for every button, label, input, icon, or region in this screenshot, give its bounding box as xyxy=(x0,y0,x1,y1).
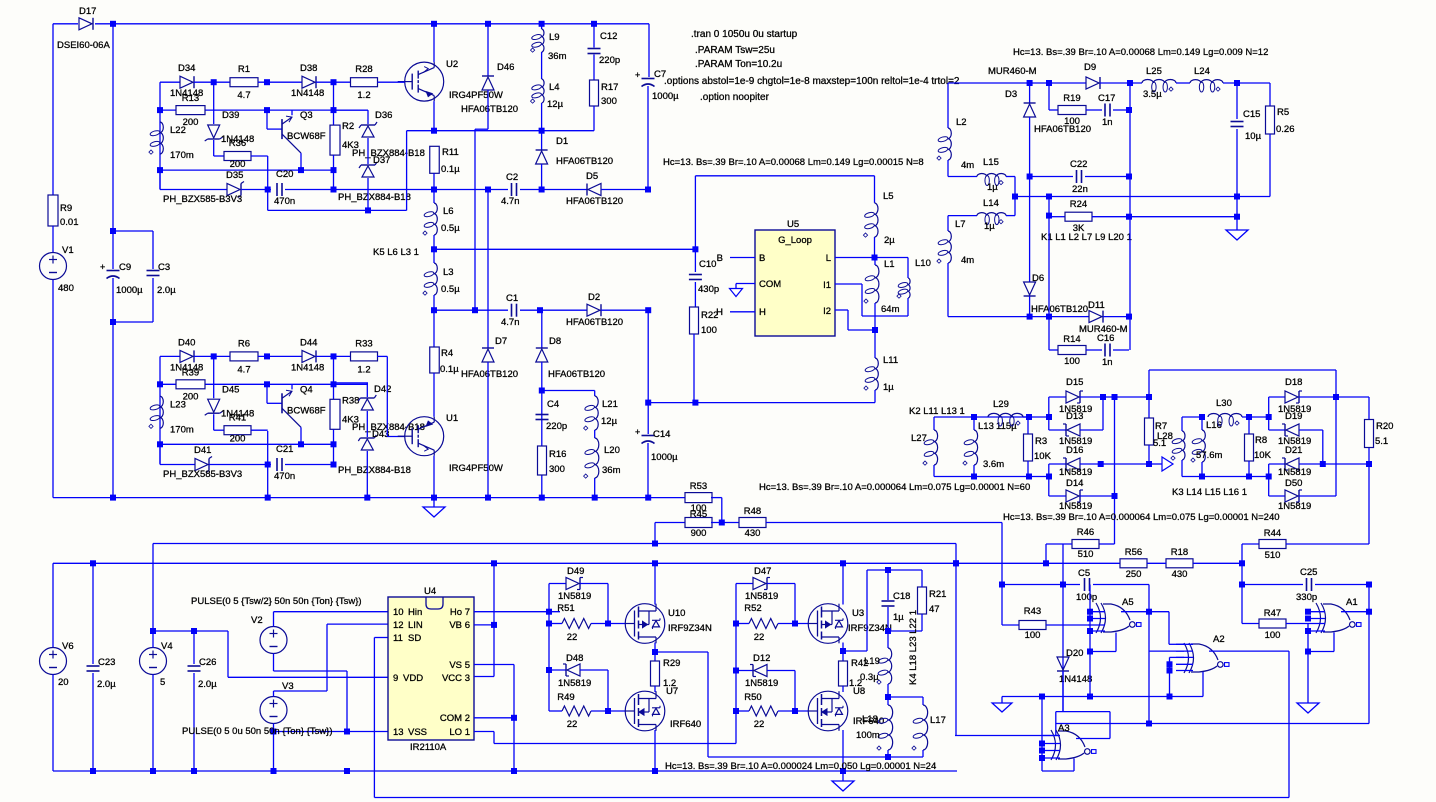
wire xyxy=(1076,738,1110,740)
wire xyxy=(316,355,351,357)
svg-text:430: 430 xyxy=(1172,569,1188,580)
wire xyxy=(378,81,405,83)
svg-text:R20: R20 xyxy=(1376,421,1393,432)
wire xyxy=(152,278,154,322)
svg-text:D40: D40 xyxy=(178,337,195,348)
svg-text:D47: D47 xyxy=(754,566,771,577)
resistor R42 xyxy=(839,658,869,689)
svg-text:L21: L21 xyxy=(602,399,618,410)
svg-text:R13: R13 xyxy=(182,93,199,104)
inductor L29 xyxy=(988,399,1023,426)
junction xyxy=(110,21,116,27)
svg-text:100: 100 xyxy=(701,325,717,336)
node H label xyxy=(716,307,723,318)
wire xyxy=(1103,316,1129,318)
svg-text:1N5819: 1N5819 xyxy=(1278,467,1311,478)
directive .PARAM Ton xyxy=(695,59,782,70)
svg-text:1.2: 1.2 xyxy=(663,678,676,689)
inductor L16 xyxy=(1191,420,1223,462)
resistor R8 xyxy=(1245,434,1272,461)
svg-text:200: 200 xyxy=(230,159,246,170)
wire xyxy=(648,402,875,404)
diode D13 xyxy=(1059,411,1092,447)
svg-text:R1: R1 xyxy=(238,64,250,75)
coupling K1 label xyxy=(1041,232,1132,243)
svg-text:20: 20 xyxy=(58,677,69,688)
wire xyxy=(285,464,334,466)
wire xyxy=(513,665,515,772)
junction xyxy=(265,462,271,468)
svg-text:C10: C10 xyxy=(699,259,716,270)
wire xyxy=(542,390,595,392)
junction xyxy=(1305,609,1311,615)
wire xyxy=(541,103,543,150)
resistor R6 xyxy=(230,338,258,375)
svg-text:D49: D49 xyxy=(567,566,584,577)
svg-text:12µ: 12µ xyxy=(547,99,564,110)
wire xyxy=(333,356,335,384)
wire xyxy=(251,155,268,157)
svg-text:R5: R5 xyxy=(1277,107,1289,118)
wire xyxy=(112,278,114,322)
svg-text:L2: L2 xyxy=(956,117,967,128)
junction xyxy=(1246,414,1252,420)
wire xyxy=(654,686,656,692)
inductor L27 xyxy=(911,430,1004,470)
junction xyxy=(971,474,977,480)
svg-text:430p: 430p xyxy=(698,284,719,295)
junction xyxy=(1146,721,1152,727)
svg-text:R56: R56 xyxy=(1125,547,1142,558)
wire xyxy=(1114,397,1116,544)
svg-text:R49: R49 xyxy=(557,692,574,703)
inductor L7 xyxy=(937,219,974,266)
junction xyxy=(1333,394,1339,400)
junction xyxy=(840,648,846,654)
wire xyxy=(1001,697,1003,704)
junction xyxy=(157,381,163,387)
svg-text:R11: R11 xyxy=(442,147,459,158)
wire xyxy=(601,189,648,191)
wire xyxy=(112,24,114,231)
wire xyxy=(1148,370,1150,418)
wire xyxy=(1006,176,1015,178)
wire xyxy=(1029,117,1031,177)
svg-text:C12: C12 xyxy=(600,31,617,42)
resistor R14 xyxy=(1058,334,1086,367)
junction xyxy=(1239,582,1245,588)
svg-text:VS: VS xyxy=(449,660,462,671)
wire xyxy=(907,258,909,279)
wire xyxy=(152,675,154,772)
svg-text:C9: C9 xyxy=(119,262,131,273)
diode D45 xyxy=(205,384,255,419)
wire xyxy=(1001,523,1003,585)
wire xyxy=(1113,109,1129,111)
svg-text:510: 510 xyxy=(1265,550,1281,561)
wire xyxy=(1236,129,1238,230)
wire xyxy=(1001,585,1003,626)
wire xyxy=(1121,611,1149,613)
svg-text:H: H xyxy=(716,307,723,318)
node top supply rail xyxy=(0,0,1,1)
capacitor C25 xyxy=(1296,567,1317,603)
wire xyxy=(160,355,180,357)
directive .tran xyxy=(691,29,798,40)
junction xyxy=(264,79,270,85)
wire xyxy=(888,696,923,698)
junction xyxy=(885,754,891,760)
junction xyxy=(110,319,116,325)
wire xyxy=(433,190,435,204)
wire xyxy=(112,231,114,269)
junction xyxy=(885,694,891,700)
junction xyxy=(298,441,304,447)
junction xyxy=(885,567,891,573)
junction xyxy=(485,495,491,501)
svg-text:D46: D46 xyxy=(497,62,514,73)
junction xyxy=(539,388,545,394)
wire xyxy=(1201,417,1203,430)
svg-text:K2 L11 L13 1: K2 L11 L13 1 xyxy=(909,406,965,417)
junction xyxy=(191,628,197,634)
label MUR460-M for D9 xyxy=(988,66,1037,77)
svg-text:Q3: Q3 xyxy=(300,110,313,121)
svg-text:Hc=13. Bs=.39 Br=.10 A=0.00068: Hc=13. Bs=.39 Br=.10 A=0.00068 Lm=0.149 … xyxy=(1013,47,1268,58)
wire xyxy=(549,710,562,712)
svg-text:L22: L22 xyxy=(170,125,186,136)
svg-text:D48: D48 xyxy=(566,653,583,664)
wire xyxy=(227,631,229,677)
junction xyxy=(537,307,543,313)
wire xyxy=(1080,396,1149,398)
wire xyxy=(52,563,54,647)
svg-text:C5: C5 xyxy=(1078,568,1090,579)
svg-text:R44: R44 xyxy=(1264,528,1281,539)
ground xyxy=(832,781,854,791)
svg-text:IRG4PF50W: IRG4PF50W xyxy=(449,463,503,474)
junction xyxy=(1234,194,1240,200)
resistor R28 xyxy=(351,64,378,101)
wire xyxy=(1041,697,1043,772)
wire xyxy=(52,280,54,498)
svg-text:1N5819: 1N5819 xyxy=(745,591,778,602)
svg-text:Hc=13. Bs=.39 Br=.10 A=0.00006: Hc=13. Bs=.39 Br=.10 A=0.000064 Lm=0.075… xyxy=(759,482,1030,493)
svg-text:L28: L28 xyxy=(1157,431,1173,442)
wire xyxy=(947,160,949,177)
wire xyxy=(1149,611,1169,613)
junction xyxy=(1027,174,1033,180)
resistor R48 xyxy=(739,506,766,539)
svg-text:R2: R2 xyxy=(342,121,354,132)
wire xyxy=(1055,712,1057,736)
wire xyxy=(1129,83,1131,350)
wire xyxy=(327,623,388,625)
junction xyxy=(1087,609,1093,615)
wire xyxy=(434,248,695,250)
junction xyxy=(431,495,437,501)
diode D14 xyxy=(1059,478,1092,512)
svg-text:5: 5 xyxy=(465,660,470,671)
svg-text:0.01: 0.01 xyxy=(60,217,79,228)
svg-text:R39: R39 xyxy=(182,367,199,378)
wire xyxy=(1149,650,1184,652)
wire xyxy=(1149,463,1162,465)
wire xyxy=(1073,759,1075,772)
coupling K4 label xyxy=(908,610,919,685)
capacitor C1 xyxy=(501,293,520,328)
svg-text:L9: L9 xyxy=(549,32,560,43)
wire xyxy=(493,563,495,676)
resistor R16 xyxy=(538,446,567,475)
junction xyxy=(652,541,658,547)
svg-text:L1: L1 xyxy=(884,259,895,270)
svg-text:1N5819: 1N5819 xyxy=(745,678,778,689)
wire xyxy=(549,623,562,625)
svg-text:LIN: LIN xyxy=(408,620,423,631)
svg-text:0.26: 0.26 xyxy=(1276,124,1295,135)
wire xyxy=(548,584,550,712)
svg-text:D8: D8 xyxy=(549,336,561,347)
svg-text:1.2: 1.2 xyxy=(357,90,370,101)
inductor L19 xyxy=(860,648,892,684)
wire xyxy=(1056,711,1110,713)
wire xyxy=(1193,562,1242,564)
svg-text:G_Loop: G_Loop xyxy=(778,235,812,246)
resistor R24 xyxy=(1065,199,1092,234)
svg-text:4m: 4m xyxy=(961,160,974,171)
inductor L13 xyxy=(963,421,1017,465)
svg-text:C20: C20 xyxy=(276,169,293,180)
resistor R21 xyxy=(918,587,947,615)
ground xyxy=(1226,230,1248,240)
svg-text:2: 2 xyxy=(465,713,470,724)
capacitor C14 xyxy=(635,427,678,463)
svg-text:.option noopiter: .option noopiter xyxy=(700,92,770,103)
junction xyxy=(605,708,611,714)
svg-text:100: 100 xyxy=(1265,630,1281,641)
junction xyxy=(1087,628,1093,634)
wire xyxy=(267,431,269,498)
wire xyxy=(654,523,656,544)
diode D18 xyxy=(1278,377,1311,415)
wire xyxy=(842,686,844,692)
svg-text:MUR460-M: MUR460-M xyxy=(988,66,1037,77)
wire xyxy=(1046,543,1072,545)
wire xyxy=(541,164,543,190)
svg-text:+: + xyxy=(100,262,105,272)
capacitor C23 xyxy=(87,657,117,690)
junction xyxy=(872,255,878,261)
wire xyxy=(874,330,876,358)
diode D37 xyxy=(338,155,411,203)
wire xyxy=(251,429,268,431)
wire xyxy=(213,140,215,156)
wire xyxy=(1299,495,1336,497)
wire xyxy=(842,771,844,781)
directive .options xyxy=(664,76,960,87)
wire xyxy=(333,82,335,110)
diode D35 xyxy=(163,170,244,205)
svg-text:1n: 1n xyxy=(1102,117,1113,128)
wire xyxy=(241,189,271,191)
junction xyxy=(1126,107,1132,113)
junction xyxy=(1305,649,1311,655)
wire xyxy=(593,106,595,131)
directive .option noopiter xyxy=(700,92,770,103)
ground xyxy=(1297,703,1319,713)
resistor R5 xyxy=(1266,106,1295,135)
svg-text:COM: COM xyxy=(440,713,462,724)
wire xyxy=(874,303,876,330)
wire xyxy=(1029,83,1031,103)
junction xyxy=(344,768,350,774)
resistor R52 xyxy=(744,603,778,643)
svg-text:U5: U5 xyxy=(787,219,799,230)
wire xyxy=(654,730,656,771)
wire xyxy=(433,310,435,347)
junction xyxy=(1234,214,1240,220)
wire xyxy=(366,383,368,397)
svg-text:2.0µ: 2.0µ xyxy=(157,285,176,296)
XOR gate A3 xyxy=(1043,723,1096,760)
wire xyxy=(934,416,1049,418)
wire xyxy=(874,237,876,258)
resistor R46 xyxy=(1072,527,1099,560)
wire xyxy=(1268,397,1270,430)
wire xyxy=(1148,585,1150,724)
wire xyxy=(95,23,649,25)
svg-text:V4: V4 xyxy=(161,641,173,652)
wire xyxy=(1109,712,1111,739)
wire xyxy=(160,383,368,385)
svg-text:L25: L25 xyxy=(1146,66,1162,77)
junction xyxy=(1087,616,1093,622)
wire xyxy=(346,671,348,732)
junction xyxy=(645,400,651,406)
wire xyxy=(160,443,334,445)
wire xyxy=(474,664,514,666)
svg-text:1µ: 1µ xyxy=(883,382,894,393)
svg-text:64m: 64m xyxy=(881,304,900,315)
capacitor C4 xyxy=(536,399,568,432)
svg-text:+: + xyxy=(635,427,640,437)
svg-text:D13: D13 xyxy=(1066,411,1083,422)
wire xyxy=(92,673,94,771)
junction xyxy=(211,79,217,85)
wire xyxy=(333,110,335,125)
junction xyxy=(110,228,116,234)
wire xyxy=(1048,397,1050,430)
junction xyxy=(1046,213,1052,219)
svg-text:K3 L14 L15 L16 1: K3 L14 L15 L16 1 xyxy=(1172,487,1247,498)
wire xyxy=(273,654,275,672)
junction xyxy=(1127,80,1133,86)
wire xyxy=(291,110,293,115)
svg-text:510: 510 xyxy=(1078,549,1094,560)
junction xyxy=(1126,214,1132,220)
wire xyxy=(433,373,435,417)
wire xyxy=(842,563,844,604)
junction xyxy=(431,246,437,252)
wire xyxy=(1029,296,1031,317)
voltage source V4 xyxy=(140,641,173,688)
wire xyxy=(53,770,957,772)
svg-text:R52: R52 xyxy=(744,603,761,614)
wire xyxy=(607,670,609,711)
junction xyxy=(1126,174,1132,180)
svg-text:0.1µ: 0.1µ xyxy=(441,164,460,175)
svg-text:HFA06TB120: HFA06TB120 xyxy=(461,369,518,380)
svg-text:1.2: 1.2 xyxy=(357,364,370,375)
svg-text:36m: 36m xyxy=(602,465,621,476)
svg-text:3.6m: 3.6m xyxy=(983,459,1004,470)
capacitor C21 xyxy=(274,444,295,482)
wire xyxy=(607,584,609,624)
wire xyxy=(1315,584,1369,586)
transistor Q4 xyxy=(282,384,326,427)
wire xyxy=(377,355,387,357)
svg-text:+: + xyxy=(635,70,640,80)
wire xyxy=(794,584,796,624)
wire xyxy=(591,623,626,625)
resistor R53 xyxy=(685,481,712,514)
junction xyxy=(1199,414,1205,420)
svg-text:5: 5 xyxy=(160,677,165,688)
svg-text:170m: 170m xyxy=(170,424,194,435)
svg-text:1000µ: 1000µ xyxy=(652,91,679,102)
wire xyxy=(1299,429,1323,431)
svg-text:10µ: 10µ xyxy=(1245,131,1262,142)
diode D1 xyxy=(536,136,613,167)
wire xyxy=(1269,429,1285,431)
svg-text:HFA06TB120: HFA06TB120 xyxy=(548,369,605,380)
ground xyxy=(423,507,445,517)
svg-text:R17: R17 xyxy=(601,82,618,93)
junction xyxy=(592,495,598,501)
wire xyxy=(1102,397,1104,430)
junction xyxy=(90,560,96,566)
capacitor C15 xyxy=(1231,109,1262,142)
svg-text:B: B xyxy=(759,253,765,264)
wire xyxy=(152,231,154,269)
svg-text:D39: D39 xyxy=(222,110,239,121)
svg-text:R41: R41 xyxy=(229,412,246,423)
wire xyxy=(736,710,749,712)
coupling K3 label xyxy=(1172,487,1247,498)
wire xyxy=(541,52,543,79)
wire xyxy=(947,216,949,231)
junction xyxy=(692,246,698,252)
svg-text:V6: V6 xyxy=(62,641,74,652)
wire xyxy=(213,82,215,124)
svg-text:HFA06TB120: HFA06TB120 xyxy=(556,156,613,167)
inductor L3 xyxy=(423,263,460,295)
junction xyxy=(472,307,478,313)
svg-text:D41: D41 xyxy=(194,445,211,456)
wire xyxy=(1049,109,1058,111)
junction xyxy=(431,128,437,134)
wire xyxy=(593,24,595,48)
wire xyxy=(887,697,889,705)
svg-text:D42: D42 xyxy=(374,384,391,395)
wire xyxy=(300,427,302,444)
wire xyxy=(487,24,489,76)
svg-text:A1: A1 xyxy=(1346,597,1358,608)
wire xyxy=(1110,723,1369,725)
wire xyxy=(474,129,476,310)
junction xyxy=(344,729,350,735)
